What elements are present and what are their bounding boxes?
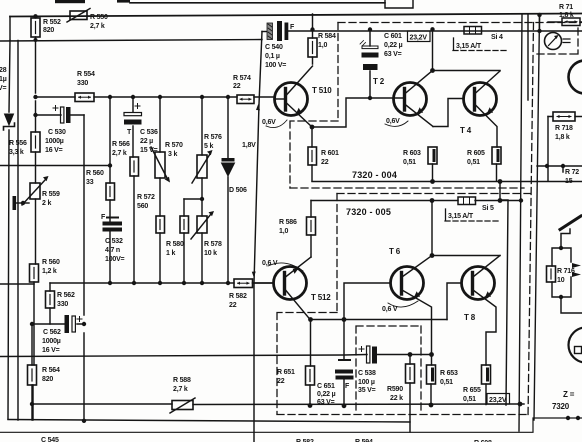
wire: R716 loop — [552, 248, 571, 297]
svg-text:22: 22 — [233, 83, 241, 90]
wire: cut-off top bar left — [55, 0, 85, 3]
svg-text:R 564: R 564 — [42, 367, 60, 374]
svg-text:3 k: 3 k — [168, 151, 177, 158]
svg-text:23,2V: 23,2V — [410, 35, 428, 42]
wire: drive line y319 — [311, 319, 448, 321]
svg-text:28: 28 — [0, 67, 7, 74]
node speaker line x547 — [545, 164, 549, 168]
svg-text:1,8 k: 1,8 k — [559, 12, 574, 19]
resistor R651 — [306, 366, 315, 385]
resistor R582 — [234, 279, 253, 288]
wire: T512 collector diagonal — [286, 290, 311, 320]
wire: C540 left link — [262, 31, 268, 33]
big circle arc top right — [569, 61, 582, 94]
svg-text:0,51: 0,51 — [403, 159, 416, 166]
wire: output rail y181 — [312, 181, 582, 183]
svg-text:R 556: R 556 — [9, 140, 27, 147]
wire: T4 emitter — [475, 104, 498, 147]
wire: R651 column — [309, 320, 312, 406]
wire: lower supply rail y200 — [311, 200, 522, 202]
svg-text:R 576: R 576 — [204, 134, 222, 141]
svg-text:7320 - 004: 7320 - 004 — [352, 170, 397, 180]
svg-text:R 562: R 562 — [57, 292, 75, 299]
wire: R580 jog to x202 — [184, 198, 202, 200]
svg-text:C 532: C 532 — [105, 238, 123, 245]
svg-text:R 580: R 580 — [166, 241, 184, 248]
svg-text:0,22 µ: 0,22 µ — [384, 42, 403, 49]
wire: T2 collector — [405, 71, 433, 95]
node T512 collector — [308, 317, 313, 322]
wire: R718 leads — [548, 116, 582, 118]
node y165 x110 — [108, 163, 112, 167]
svg-text:100 V=: 100 V= — [265, 62, 286, 69]
wire: x110 column R560-C532 — [109, 97, 111, 283]
wire: top frame line — [130, 2, 385, 4]
diode D506 — [222, 158, 235, 176]
svg-text:C 562: C 562 — [43, 329, 61, 336]
node upper bus x133 — [131, 95, 135, 99]
resistor R556 — [31, 132, 40, 152]
wire: T8 base jog — [447, 283, 462, 320]
dashed meter box bottom — [537, 28, 578, 54]
dashed box 7320-005 top — [337, 193, 530, 195]
node upper bus x35 — [33, 95, 37, 99]
zener diode D551 — [4, 114, 15, 130]
svg-text:5 k: 5 k — [204, 143, 213, 150]
svg-text:R 550: R 550 — [90, 14, 108, 21]
node T2 collector — [430, 68, 435, 73]
wire: R552/R556 column x35 — [33, 37, 36, 420]
speaker square — [575, 347, 582, 354]
svg-text:T 8: T 8 — [464, 313, 476, 322]
node rail405 x344 — [342, 403, 347, 408]
svg-text:V=: V= — [0, 85, 6, 92]
svg-text:3,3 k: 3,3 k — [9, 149, 24, 156]
svg-text:R 560: R 560 — [86, 170, 104, 177]
wire: upper bus y97 — [36, 96, 275, 98]
dashed box 7320-004 bottom — [290, 187, 524, 189]
wire: R584 column — [312, 14, 314, 64]
resistor R655 — [482, 365, 491, 384]
connector arrows right edge — [572, 263, 581, 277]
resistor R590 — [406, 364, 415, 383]
svg-text:2,7 k: 2,7 k — [90, 23, 105, 30]
node lower bus x228 — [226, 281, 230, 285]
svg-text:C 530: C 530 — [48, 129, 66, 136]
svg-text:1µ: 1µ — [0, 76, 7, 83]
svg-text:R 716: R 716 — [557, 268, 575, 275]
svg-text:10: 10 — [557, 277, 565, 284]
wire: R586 column — [310, 201, 312, 258]
resistor R605 — [492, 147, 501, 164]
svg-text:3,15 A/T: 3,15 A/T — [456, 43, 482, 50]
capacitor C651 — [335, 359, 354, 380]
resistor R574 — [237, 95, 254, 104]
wire: R552 column — [35, 16, 37, 18]
svg-text:C 540: C 540 — [265, 44, 283, 51]
svg-text:R 570: R 570 — [165, 142, 183, 149]
svg-text:T 2: T 2 — [373, 77, 385, 86]
node rail405 x310 — [308, 403, 313, 408]
svg-text:C 538: C 538 — [358, 370, 376, 377]
node C601 top — [368, 27, 372, 31]
resistor R564 — [28, 365, 37, 385]
node lower bus x202 — [200, 281, 204, 285]
resistor R601 — [308, 147, 317, 165]
svg-text:35 V=: 35 V= — [358, 387, 376, 394]
dashed box 7320-004 left — [290, 23, 338, 189]
dashed box 7320-005 bottom — [277, 414, 530, 416]
svg-text:R 71: R 71 — [559, 4, 573, 11]
wire: mid-left horizontal y165 — [0, 165, 110, 167]
wire: C651/C538 node column x344 — [343, 320, 345, 407]
dashed box 7320-004 top — [338, 22, 582, 24]
svg-text:R 552: R 552 — [43, 19, 61, 26]
capacitor C562 — [65, 315, 83, 333]
wire: T2 emitter — [405, 104, 434, 127]
wire: x160 column R570-R572 — [159, 97, 161, 283]
capacitor C601 — [360, 41, 379, 71]
resistor R560 33 — [106, 183, 115, 200]
wire: C540 output rail y31 — [288, 30, 582, 32]
svg-text:22: 22 — [277, 378, 285, 385]
svg-text:330: 330 — [57, 301, 68, 308]
wire: R717 leads — [548, 21, 582, 23]
wire: top supply bus — [10, 14, 582, 17]
transistor T4 — [464, 83, 497, 116]
node C601 base line — [368, 96, 372, 100]
svg-text:2,7 k: 2,7 k — [173, 386, 188, 393]
node C538 R590 — [408, 352, 413, 357]
svg-text:R 655: R 655 — [463, 387, 481, 394]
measure arrow on rail x259 — [256, 104, 260, 110]
node R552 bottom y40 — [34, 38, 38, 42]
svg-text:2,7 k: 2,7 k — [112, 150, 127, 157]
svg-text:100V=: 100V= — [105, 256, 125, 263]
svg-text:1,8V: 1,8V — [242, 142, 256, 149]
svg-text:R 72: R 72 — [565, 169, 579, 176]
node R559 wiper — [21, 201, 25, 205]
value box 23,2V bottom — [487, 394, 510, 405]
wire: R603 bottom — [432, 164, 434, 182]
svg-text:0,1 µ: 0,1 µ — [265, 53, 280, 60]
node upper bus x228 — [226, 95, 230, 99]
wire: left stub y284 — [0, 283, 34, 285]
wire: C538 output wire y355 — [0, 355, 432, 357]
svg-text:R 605: R 605 — [467, 150, 485, 157]
resistor R572 — [156, 216, 165, 233]
wire: x202 column R576-R578 — [201, 97, 203, 283]
node C562 left — [30, 322, 34, 326]
resistor R584 — [308, 38, 317, 57]
svg-text:0,6 V: 0,6 V — [382, 306, 398, 313]
wire: R718 column x548 — [547, 117, 549, 182]
transistor T8 — [462, 267, 495, 300]
wire: T510 collector — [287, 66, 313, 95]
value box 23,2V top — [408, 31, 431, 42]
wire: T6/T8 collector rail y255 — [432, 255, 500, 257]
svg-text:0,22 µ: 0,22 µ — [317, 391, 336, 398]
svg-text:C 536: C 536 — [140, 129, 158, 136]
wire: x540 link bus to rail — [539, 15, 541, 31]
node C538 right end — [429, 352, 434, 357]
potentiometer R570 — [151, 147, 170, 183]
node upper bus x160 — [158, 95, 162, 99]
svg-text:15 V=: 15 V= — [140, 147, 158, 154]
svg-text:0,6V: 0,6V — [386, 118, 400, 125]
wire: R653 column — [430, 355, 433, 406]
svg-text:33: 33 — [86, 179, 94, 186]
wire: right bus C — [534, 15, 540, 420]
svg-text:C 601: C 601 — [384, 33, 402, 40]
svg-text:R 582: R 582 — [229, 293, 247, 300]
node rail200 x432 — [430, 198, 435, 203]
wire: T2 collector node up to bus — [432, 29, 434, 70]
svg-text:23,2V: 23,2V — [489, 397, 507, 404]
node C562 right — [82, 322, 86, 326]
Si4 bracket — [453, 38, 455, 50]
dashed box 7320-005 left — [277, 194, 337, 415]
transistor T6 — [391, 267, 424, 300]
wire: T6 base jog — [344, 283, 391, 320]
svg-text:C 651: C 651 — [317, 383, 335, 390]
svg-text:R 560: R 560 — [42, 259, 60, 266]
potentiometer R559 — [22, 176, 49, 205]
node upper bus x110 — [108, 95, 112, 99]
svg-text:0,51: 0,51 — [440, 379, 453, 386]
transistor T510 — [275, 83, 308, 116]
speaker circle bottom right — [569, 328, 582, 363]
wire: x228 column D506 — [227, 97, 229, 283]
node R716 top — [559, 246, 563, 250]
svg-text:22 µ: 22 µ — [140, 138, 153, 145]
svg-text:16 V=: 16 V= — [45, 147, 63, 154]
svg-text:T 510: T 510 — [312, 86, 332, 95]
svg-text:R 578: R 578 — [204, 241, 222, 248]
wire: T8 collector diagonal — [473, 256, 500, 278]
wire: switch stub — [562, 166, 564, 172]
wire: R605 bottom — [496, 164, 498, 181]
node T510 emitter — [310, 125, 315, 130]
svg-text:3,15 A/T: 3,15 A/T — [448, 213, 474, 220]
relay box cut at top edge — [385, 0, 413, 8]
wire: T6/T8 collector node column — [431, 201, 433, 256]
wire: T2 emitter to T4 base jog — [433, 99, 464, 127]
wire: T8 emitter — [473, 290, 496, 365]
svg-text:1000µ: 1000µ — [42, 338, 61, 345]
svg-text:Si 4: Si 4 — [491, 34, 503, 41]
0,6V arc T512 — [268, 263, 303, 271]
svg-text:4,7 n: 4,7 n — [105, 247, 120, 254]
svg-text:R 554: R 554 — [77, 71, 95, 78]
resistor R603 — [428, 147, 437, 164]
wire: switch to R716 loop — [561, 229, 570, 248]
wire: top-left corner down — [9, 17, 11, 41]
wire: output drop x500 — [500, 182, 508, 406]
node lower bus x160 — [158, 281, 162, 285]
svg-text:1 k: 1 k — [166, 250, 175, 257]
svg-text:T 4: T 4 — [460, 126, 472, 135]
wire: T6 collector diagonal — [402, 256, 432, 278]
dashed channel right edge — [528, 23, 534, 419]
svg-text:Si 5: Si 5 — [482, 205, 494, 212]
wire: right bus A — [519, 15, 522, 431]
svg-text:R 572: R 572 — [137, 194, 155, 201]
node R584 top — [310, 27, 314, 31]
wire: C530 right column x84 — [83, 115, 85, 421]
node rail405 x431 — [429, 403, 434, 408]
svg-text:330: 330 — [77, 80, 88, 87]
wire: left bus L2 — [17, 41, 19, 421]
svg-text:T 512: T 512 — [311, 293, 331, 302]
potentiometer R578 — [191, 211, 214, 239]
node y418 x568 — [566, 416, 570, 420]
0,6V arc T510 — [266, 120, 287, 128]
wire: T512 emitter diagonal — [286, 257, 312, 277]
0,6V arc T6 — [388, 301, 418, 307]
transistor T512 — [274, 267, 307, 300]
svg-text:15: 15 — [565, 178, 573, 185]
wire: R562 branch — [49, 283, 51, 324]
svg-text:R 718: R 718 — [555, 125, 573, 132]
Si5 bracket — [445, 209, 447, 220]
node bus x540 rail31 — [537, 29, 541, 33]
svg-text:820: 820 — [42, 376, 53, 383]
svg-text:Z =: Z = — [563, 390, 575, 399]
wire: T4 collector — [475, 71, 501, 94]
fuse Si5 — [458, 197, 476, 205]
node lower bus x134 — [132, 281, 136, 285]
svg-text:7320: 7320 — [552, 402, 570, 411]
svg-text:0,51: 0,51 — [467, 159, 480, 166]
svg-text:R 584: R 584 — [318, 33, 336, 40]
wire: R564 column — [31, 324, 33, 420]
svg-text:560: 560 — [137, 203, 148, 210]
wire: x184 column R580 — [183, 199, 185, 283]
svg-text:R 586: R 586 — [279, 219, 297, 226]
node upper bus x202 — [200, 95, 204, 99]
svg-text:R 601: R 601 — [321, 150, 339, 157]
wire: left bus L1 with zener branch — [8, 41, 10, 420]
svg-text:0,6 V: 0,6 V — [262, 260, 278, 267]
dashed Si4 underline — [453, 50, 508, 52]
wire: R590 column — [409, 355, 411, 433]
svg-text:0,51: 0,51 — [463, 396, 476, 403]
capacitor C530 — [53, 106, 71, 124]
svg-text:16 V=: 16 V= — [42, 347, 60, 354]
node R716 bottom — [559, 295, 563, 299]
svg-text:R 653: R 653 — [440, 370, 458, 377]
svg-text:10 k: 10 k — [204, 250, 217, 257]
resistor R718 — [553, 112, 575, 121]
wire: bottom rail R2 with jog — [0, 418, 582, 432]
wire: R559 wiper stub — [16, 202, 29, 204]
svg-text:C 545: C 545 — [41, 437, 59, 442]
wire: short right vertical B — [527, 15, 529, 100]
svg-text:2 k: 2 k — [42, 200, 51, 207]
svg-text:T 6: T 6 — [389, 247, 401, 256]
DASHED — [277, 23, 582, 419]
svg-text:R 588: R 588 — [173, 377, 191, 384]
svg-text:R 566: R 566 — [112, 141, 130, 148]
wire: T512 base from R582 — [253, 282, 274, 284]
node collector rail x432 — [430, 253, 435, 258]
node R564 bottom — [30, 402, 34, 406]
capacitor C538 — [359, 346, 377, 364]
svg-text:1000µ: 1000µ — [45, 138, 64, 145]
wire: T2/T4 collector rail y71 — [433, 70, 501, 72]
resistor R566 — [130, 157, 139, 176]
resistor R554 — [75, 93, 94, 102]
node R578 jog — [200, 197, 204, 201]
node rail181 x433 — [430, 179, 435, 184]
resistor R716 — [547, 266, 556, 282]
resistor R552 — [31, 18, 40, 37]
svg-text:1,0: 1,0 — [318, 42, 327, 49]
meter M — [545, 33, 571, 50]
node C530 tap — [33, 113, 37, 117]
resistor R580 — [180, 216, 189, 233]
fuse Si4 — [464, 27, 482, 35]
node speaker line x563 — [561, 164, 565, 168]
svg-text:R 651: R 651 — [277, 369, 295, 376]
measure arrow above lower bus — [252, 272, 256, 278]
terminal bar R559 wiper — [13, 196, 17, 210]
wire: output to speaker — [561, 297, 582, 313]
svg-text:63 V=: 63 V= — [317, 399, 335, 406]
wire: R655 bottom — [485, 384, 487, 405]
wire: bottom rail R1 — [8, 420, 410, 423]
node y418 x578 — [576, 416, 580, 420]
svg-text:0,6V: 0,6V — [262, 119, 276, 126]
svg-text:1,2 k: 1,2 k — [42, 268, 57, 275]
node rail200 x500 — [498, 198, 503, 203]
wire: speaker line y166 — [537, 165, 582, 167]
node T2 collector top — [430, 27, 434, 31]
node R552 top — [33, 14, 37, 18]
0,6V arc T2 — [385, 121, 408, 126]
svg-text:22: 22 — [229, 302, 237, 309]
resistor R717 top corner — [562, 18, 580, 26]
wire: T510 emitter to T2 base jog — [312, 98, 404, 127]
wire: feedback line y405 — [32, 403, 524, 406]
svg-text:R590: R590 — [387, 386, 403, 393]
switch blade — [560, 216, 581, 230]
resistor R586 — [307, 217, 316, 235]
dashed inner box C538 — [356, 326, 421, 414]
node bus x540 top — [537, 13, 541, 17]
wire: lower bus y283 — [50, 282, 274, 284]
resistor R550 — [67, 9, 90, 23]
svg-text:22 k: 22 k — [390, 395, 403, 402]
svg-text:R 574: R 574 — [233, 75, 251, 82]
svg-text:7320 - 005: 7320 - 005 — [346, 207, 391, 217]
capacitor C532 — [103, 217, 123, 232]
wire: x133 column C536-R566 — [133, 97, 134, 283]
wire: second top line y40 — [0, 40, 262, 42]
dashed Si5 underline — [445, 220, 498, 222]
capacitor C536 — [124, 104, 142, 125]
wire: T510 emitter node to R601 — [311, 127, 313, 181]
svg-text:820: 820 — [43, 27, 54, 34]
wire: cut-off top bar 2 — [117, 0, 130, 3]
svg-text:R 603: R 603 — [403, 150, 421, 157]
node rail200 right end — [519, 198, 523, 202]
wire: T6 emitter — [402, 290, 432, 355]
svg-text:R 559: R 559 — [42, 191, 60, 198]
node rail R1 x84 — [82, 419, 86, 423]
wire: C530 tap y115 — [36, 114, 85, 116]
